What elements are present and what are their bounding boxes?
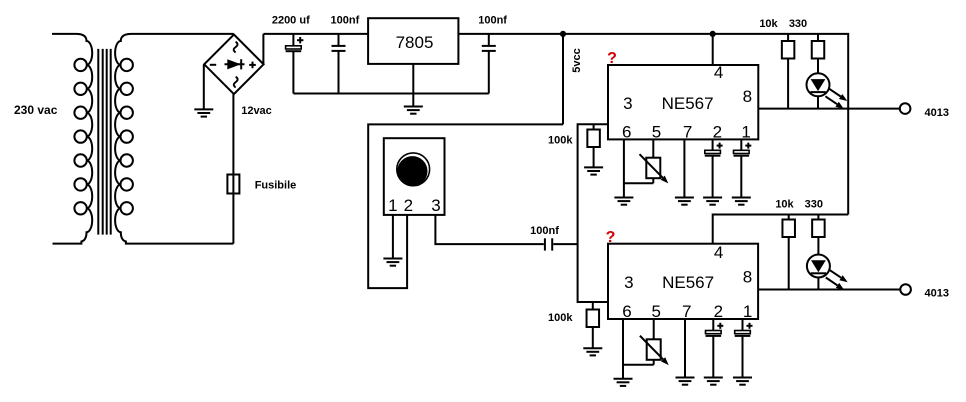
- svg-text:100nf: 100nf: [331, 14, 360, 26]
- svg-text:2: 2: [713, 122, 722, 141]
- C6 plus mark: [745, 143, 751, 149]
- trimmer P1: [640, 154, 669, 183]
- capacitor C6 at U2 pin1: [734, 150, 750, 155]
- wire C8 leads: [742, 319, 744, 378]
- ground at U2 pin7: [675, 198, 694, 205]
- C8 plus mark: [747, 323, 753, 329]
- wire 5vcc to sensor pin2 loop: [368, 124, 563, 288]
- transformer T1 secondary winding (12vac) with top/bottom leads: [115, 34, 233, 244]
- wire rail bridge to 7805 input: [263, 33, 368, 35]
- wire U2 pin8 output line: [758, 108, 900, 110]
- capacitor C1 2200uf plates: [286, 46, 302, 51]
- capacitor C1 2200uf leads: [292, 34, 294, 94]
- svg-text:330: 330: [805, 199, 823, 211]
- wire R4 stubs: [592, 302, 594, 348]
- wire input node vertical: [578, 124, 608, 302]
- sensor pin3 label: [431, 196, 442, 215]
- wire sensor pin3 output: [435, 215, 543, 244]
- resistor R3 330 body: [812, 41, 825, 59]
- svg-text:100k: 100k: [548, 134, 573, 146]
- wire sensor pin1 to ground: [392, 215, 394, 259]
- ground at C7: [704, 378, 723, 385]
- wire 7805 ground pin: [412, 64, 414, 107]
- capacitor C8 at U3 pin1: [735, 331, 751, 336]
- svg-text:?: ?: [607, 50, 617, 67]
- capacitor C2 100nf leads: [338, 34, 340, 94]
- svg-text:100nf: 100nf: [530, 225, 559, 237]
- svg-text:Fusibile: Fusibile: [255, 179, 297, 191]
- svg-text:3: 3: [431, 196, 440, 215]
- ground at U3 pin7: [676, 378, 695, 385]
- bridge rectifier internal diode: [225, 59, 245, 69]
- wire R2 stubs: [787, 34, 789, 109]
- svg-text:?: ?: [606, 229, 616, 246]
- svg-text:5: 5: [652, 122, 661, 141]
- svg-text:4: 4: [714, 63, 723, 82]
- wire U3 pin7 to ground: [684, 319, 686, 378]
- ground at 7805: [404, 107, 423, 114]
- bridge minus terminal mark: [210, 64, 216, 66]
- capacitor C2 100nf plates: [332, 46, 346, 51]
- resistor R4 100k body: [587, 310, 600, 328]
- wire R1 stubs: [593, 124, 595, 167]
- sensor lens ring: [397, 153, 430, 186]
- svg-text:2: 2: [714, 302, 723, 321]
- svg-text:4013: 4013: [925, 288, 949, 300]
- resistor R1 100k body: [587, 130, 600, 148]
- wire C4 to input node: [553, 243, 577, 245]
- wire U2 pin5 to trimmer: [652, 139, 654, 183]
- wire C6 leads: [740, 139, 742, 197]
- sensor pin1 label: [388, 196, 399, 215]
- wire U3 pin8 output line: [758, 289, 900, 291]
- transformer T1 secondary loop circles: [121, 59, 133, 215]
- svg-text:10k: 10k: [775, 199, 794, 211]
- ground at R4: [583, 348, 602, 355]
- svg-text:6: 6: [622, 122, 631, 141]
- svg-text:3: 3: [624, 273, 633, 292]
- wire R5 stubs: [788, 215, 790, 290]
- LED D1: [807, 73, 848, 108]
- junction dot 5vcc: [560, 31, 566, 37]
- wire U3 pin5 to trimmer: [653, 319, 655, 365]
- wire bridge - to ground: [203, 65, 205, 110]
- svg-text:7: 7: [683, 122, 692, 141]
- wire U3 pin6 to ground with tee: [623, 319, 654, 379]
- ground at sensor: [383, 259, 402, 266]
- C5 plus mark: [717, 143, 723, 149]
- C7 plus mark: [717, 323, 723, 329]
- svg-text:100nf: 100nf: [478, 14, 507, 26]
- ground at C5: [703, 198, 722, 205]
- junction dot U2 pin4 rail: [710, 31, 716, 37]
- svg-text:2: 2: [404, 196, 413, 215]
- sensor module box: [384, 138, 445, 215]
- wire bridge + output riser: [262, 34, 264, 64]
- svg-text:4013: 4013: [925, 107, 949, 119]
- resistor R5 10k body: [782, 220, 795, 238]
- svg-text:2200 uf: 2200 uf: [272, 14, 310, 26]
- wire U2 pin7 to ground: [683, 139, 685, 197]
- svg-text:3: 3: [623, 94, 632, 113]
- svg-text:5vcc: 5vcc: [571, 48, 583, 72]
- capacitor C3 100nf leads: [488, 34, 490, 94]
- sensor lens: [397, 156, 427, 186]
- fuse F1: [227, 175, 239, 194]
- ground at C8: [733, 378, 752, 385]
- ground at C6: [732, 198, 751, 205]
- wire U2 pin4 from rail: [712, 34, 714, 65]
- svg-text:4: 4: [714, 243, 723, 262]
- transformer T1 primary loop circles: [74, 59, 86, 215]
- transformer T1 primary winding (230 vac): [52, 34, 92, 244]
- ground at bridge negative: [194, 109, 213, 116]
- wire C7 leads: [712, 319, 714, 378]
- svg-text:7: 7: [682, 302, 691, 321]
- svg-text:10k: 10k: [759, 18, 778, 30]
- capacitor C4 100nf coupling plates: [545, 238, 552, 250]
- output terminal circle (channel 1): [900, 103, 911, 114]
- svg-text:230 vac: 230 vac: [14, 103, 58, 117]
- resistor R2 10k body: [782, 41, 795, 59]
- ground at R1: [584, 167, 603, 174]
- svg-text:1: 1: [743, 302, 752, 321]
- wire U2 pin6 to ground with tee: [624, 139, 653, 197]
- svg-text:NE567: NE567: [662, 94, 714, 113]
- trimmer P2: [640, 336, 669, 365]
- svg-text:8: 8: [743, 268, 752, 287]
- bridge plus terminal mark: [249, 62, 256, 69]
- ground at U2 pin6: [614, 198, 633, 205]
- wire 5vcc drop: [562, 34, 564, 125]
- svg-text:1: 1: [388, 196, 397, 215]
- capacitor C5 at U2 pin2: [705, 150, 721, 155]
- svg-text:330: 330: [789, 18, 807, 30]
- wire R3 stubs: [817, 34, 819, 109]
- svg-text:1: 1: [741, 122, 750, 141]
- svg-text:100k: 100k: [548, 312, 573, 324]
- wire R6 stubs: [817, 215, 819, 290]
- IC U2 NE567 box: [608, 65, 758, 139]
- bridge rectifier AC squiggle bottom: [234, 77, 238, 88]
- svg-text:8: 8: [743, 87, 752, 106]
- svg-text:6: 6: [622, 302, 631, 321]
- IC U3 NE567 box: [608, 244, 758, 319]
- wire +5v rail 7805 output to right corner: [458, 34, 848, 215]
- regulator U1 7805 box: [368, 18, 458, 64]
- capacitor C7 at U3 pin2: [706, 331, 722, 336]
- wire ground bus under regulator: [293, 93, 488, 95]
- wire channel2 vcc rail: [713, 215, 849, 244]
- svg-text:7805: 7805: [396, 33, 434, 52]
- bridge rectifier B1 diamond outline: [204, 35, 263, 95]
- LED D2: [807, 255, 848, 290]
- bridge rectifier AC squiggle top: [234, 42, 238, 53]
- resistor R6 330 body: [812, 220, 825, 238]
- svg-text:NE567: NE567: [662, 273, 714, 292]
- svg-text:12vac: 12vac: [241, 105, 272, 117]
- wire bridge bottom vertex through fuse: [232, 94, 234, 244]
- capacitor C3 100nf plates: [482, 46, 496, 51]
- svg-text:5: 5: [651, 302, 660, 321]
- wire C5 leads: [712, 139, 714, 197]
- ground at U3 pin6: [614, 379, 633, 386]
- transformer T1 core: [98, 49, 110, 235]
- output terminal circle (channel 2): [900, 284, 911, 295]
- capacitor C1 plus mark: [297, 37, 303, 43]
